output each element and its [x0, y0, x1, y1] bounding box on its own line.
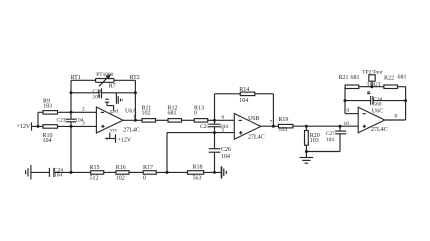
resistor R10	[43, 125, 96, 129]
wire right loop U6C	[385, 87, 406, 120]
svg-text:TP2 Tout: TP2 Tout	[362, 70, 383, 76]
svg-text:512: 512	[90, 176, 99, 182]
capacitor C27	[306, 126, 346, 151]
wire U6B output	[261, 125, 279, 127]
wire vertical pin3 to bottom row	[70, 126, 72, 172]
wire row B right	[102, 92, 136, 94]
resistor R15	[91, 171, 116, 175]
svg-text:R19: R19	[278, 117, 288, 123]
svg-text:1: 1	[133, 114, 136, 120]
svg-text:R17: R17	[143, 165, 153, 171]
svg-text:9: 9	[347, 108, 350, 114]
svg-text:27L4C: 27L4C	[371, 127, 388, 133]
svg-text:U6B: U6B	[248, 116, 259, 122]
capacitor C23	[66, 112, 77, 126]
resistor R22	[384, 85, 406, 89]
svg-text:102: 102	[142, 110, 151, 116]
op-amp U6B	[234, 114, 260, 140]
svg-text:6: 6	[222, 115, 225, 121]
wire row B left	[71, 92, 99, 94]
svg-text:102: 102	[116, 176, 125, 182]
svg-text:104: 104	[43, 138, 52, 144]
ground bottom-right	[222, 166, 227, 178]
capacitor C28	[345, 92, 406, 105]
svg-text:27L4C: 27L4C	[248, 134, 265, 140]
potentiometer R7 PT1000	[96, 74, 115, 86]
ground below R20	[300, 152, 314, 164]
resistor R18	[188, 171, 221, 175]
resistor R9	[38, 111, 96, 115]
resistor R16	[116, 171, 143, 175]
svg-text:681: 681	[398, 75, 407, 81]
svg-text:C26: C26	[221, 147, 231, 153]
node +12V input	[32, 122, 44, 130]
svg-text:RT2: RT2	[130, 75, 140, 81]
resistor R17	[143, 171, 187, 175]
svg-text:27L4C: 27L4C	[123, 127, 140, 133]
svg-text:R14: R14	[239, 87, 249, 93]
svg-text:103: 103	[310, 138, 319, 144]
op-amp U6A	[96, 107, 123, 133]
node RT1 corner	[70, 80, 72, 93]
svg-text:R21: R21	[339, 75, 349, 81]
svg-text:0: 0	[143, 176, 146, 182]
wire row A left	[71, 79, 96, 81]
wire vertical feedback left	[70, 93, 72, 113]
resistor R19	[278, 124, 358, 128]
svg-text:+12V: +12V	[17, 124, 31, 130]
wire vcc to +12V	[105, 133, 116, 143]
svg-text:3: 3	[82, 121, 85, 127]
wire U6A output	[123, 119, 142, 121]
svg-text:104: 104	[54, 173, 62, 179]
svg-text:2: 2	[82, 107, 85, 113]
svg-text:R7: R7	[109, 84, 116, 90]
resistor R21	[345, 85, 384, 89]
test point TP2 TOUT	[369, 75, 375, 87]
ground bottom-left	[26, 165, 31, 179]
wire pin9	[345, 87, 358, 114]
svg-text:C27: C27	[326, 131, 335, 137]
capacitor C22 to ground near vss	[105, 93, 122, 110]
svg-text:104: 104	[221, 154, 230, 160]
svg-text:gnd: gnd	[110, 108, 118, 114]
svg-text:10: 10	[344, 121, 350, 127]
svg-text:0: 0	[194, 110, 197, 116]
svg-text:104: 104	[239, 98, 248, 104]
svg-text:R16: R16	[116, 165, 126, 171]
wire pin2 rail	[37, 112, 39, 126]
op-amp U6C	[358, 107, 385, 132]
svg-text:103: 103	[278, 127, 287, 133]
svg-text:TOUT: TOUT	[367, 82, 382, 88]
svg-text:5: 5	[222, 128, 225, 134]
wire feedback R14 riser	[214, 94, 216, 121]
resistor R14	[215, 92, 274, 126]
svg-text:C25: C25	[200, 124, 209, 130]
wire feedback to output	[134, 93, 136, 121]
svg-text:8: 8	[395, 114, 398, 120]
svg-text:104: 104	[93, 94, 101, 100]
resistor R12	[168, 119, 194, 123]
resistor R13	[194, 119, 234, 123]
svg-text:R18: R18	[193, 165, 203, 171]
capacitor C26	[209, 133, 221, 173]
svg-text:PT1000: PT1000	[96, 72, 113, 78]
svg-text:R15: R15	[90, 165, 100, 171]
wire pin5 line	[167, 133, 234, 173]
wire row A right	[114, 79, 135, 81]
svg-text:+12V: +12V	[118, 137, 132, 143]
svg-text:104: 104	[326, 137, 334, 143]
svg-text:681: 681	[168, 110, 177, 116]
svg-text:R22: R22	[384, 76, 394, 82]
svg-text:560: 560	[373, 102, 381, 108]
svg-text:7: 7	[270, 120, 273, 126]
svg-text:U6C: U6C	[372, 109, 383, 115]
resistor R20	[305, 126, 309, 151]
resistor R11	[142, 119, 168, 123]
svg-text:RT1: RT1	[71, 75, 81, 81]
svg-text:vcc: vcc	[110, 127, 118, 133]
node RT2 corner	[134, 80, 136, 93]
capacitor C21	[99, 88, 102, 98]
svg-text:563: 563	[193, 176, 202, 182]
svg-text:C23: C23	[57, 118, 66, 124]
capacitor C24	[31, 168, 91, 177]
svg-text:183: 183	[43, 104, 52, 110]
svg-text:681: 681	[351, 75, 360, 81]
capacitor C25	[209, 120, 221, 132]
